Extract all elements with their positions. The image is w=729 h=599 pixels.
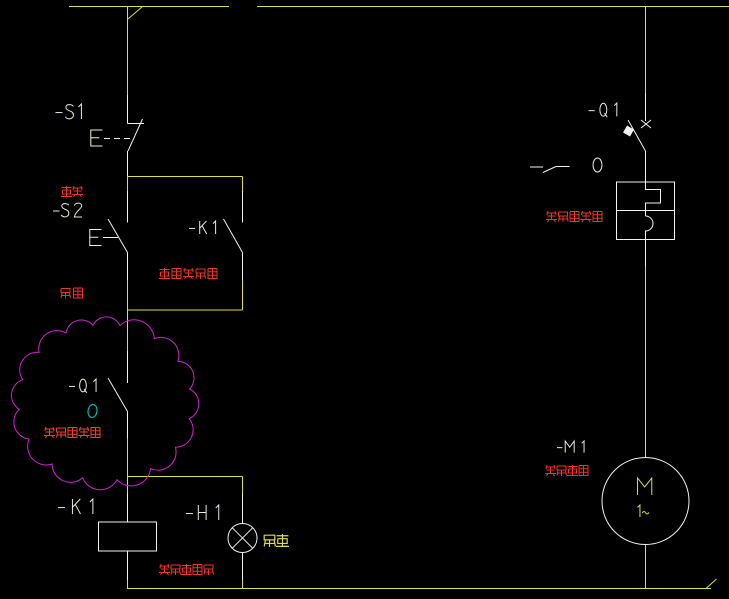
label -Q1 right [589,103,617,117]
wire motor to bottom bus [645,545,647,590]
label M [638,478,652,495]
wire right branch drop from top bus [645,7,647,94]
text 红色 yellow [264,534,289,547]
wire Q1-left to coil branch node [127,438,129,477]
text 工作电机 red [545,465,588,476]
wire K1-contact branch drop [242,177,244,192]
label -Q1 left [69,379,96,393]
breaker Q1-right [617,93,675,266]
wire node to K1 coil [127,477,129,494]
wire top bus right segment [257,6,729,8]
junction slash bottom bus right end [706,579,717,589]
label 0 teal [87,404,98,418]
text 启动 (start) red [61,288,83,299]
wire S2 lower pin to node [127,280,129,310]
wire node to Q1-left [127,310,129,351]
wire Q1-right to motor [645,266,647,458]
label -H1 [186,505,219,520]
motor M1 [602,458,689,545]
text 停止 (stop) red [61,186,83,197]
junction slash top-left node [128,7,143,20]
text 负载断路器 right red [546,211,602,222]
label E of S1 [91,130,103,146]
text 负载断路器 left (in cloud) red [44,427,100,438]
label E of S2 [90,230,102,246]
wire lamp to bottom bus [242,580,244,589]
label -S1 [56,104,82,119]
label -K1 coil [58,499,93,514]
label -S2 [53,203,82,217]
breaker Q1-left (in cloud) [108,351,128,438]
wire coil branch top rail [128,476,243,478]
pushbutton S1 (NC stop) [104,95,144,151]
relay contact K1 (NO) [224,191,243,280]
wire K1-contact lower pin to rail [242,280,244,310]
wire K1 coil to bottom bus [127,580,129,589]
wire branch top rail [128,176,243,178]
lamp H1 [228,494,257,580]
revision cloud [11,317,198,490]
label 0 right [593,158,602,172]
label 1~ [638,505,649,517]
text 工作指示灯 red [159,564,214,575]
pushbutton S2 (NO start) [103,191,128,280]
wire lamp branch drop [242,477,244,495]
wire left main drop from top bus [127,7,129,96]
text 中间继电器 red [159,268,217,279]
wire node to S2 [127,177,129,192]
label -M1 [557,441,584,453]
label -K1 contact [189,221,216,234]
wire S1 to parallel-branch node [127,151,129,177]
wire branch bottom rail [128,309,243,311]
wire top bus left segment [69,6,229,8]
wire bottom bus [128,588,712,590]
mechanism link symbol [530,167,570,173]
relay coil K1 [99,493,157,580]
